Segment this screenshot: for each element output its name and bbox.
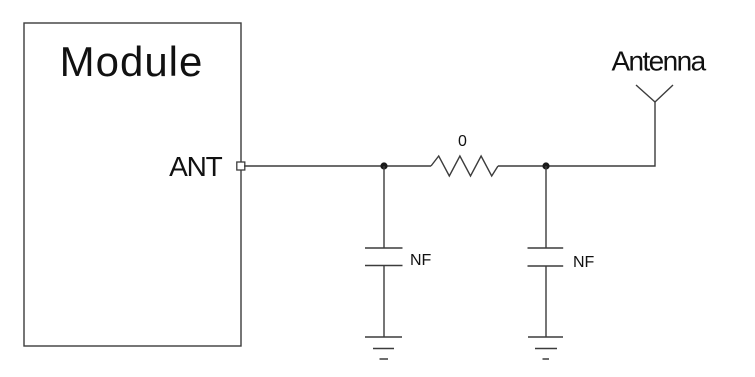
svg-text:Module: Module bbox=[60, 38, 204, 85]
wire node B to capacitor C2 bbox=[545, 166, 547, 248]
ground GND1 bbox=[365, 337, 402, 359]
svg-text:NF: NF bbox=[410, 252, 432, 269]
svg-text:0: 0 bbox=[458, 133, 467, 150]
wire capacitor C1 to ground bbox=[383, 266, 385, 338]
capacitor C2 bbox=[528, 248, 564, 266]
wire capacitor C2 to ground bbox=[545, 266, 547, 337]
node B junction bbox=[542, 162, 549, 169]
resistor R1 zigzag bbox=[431, 156, 498, 176]
node A junction bbox=[380, 162, 387, 169]
svg-text:NF: NF bbox=[573, 254, 595, 271]
module box U1 bbox=[24, 23, 241, 346]
capacitor C1 bbox=[365, 248, 403, 266]
wire node A to capacitor C1 bbox=[383, 166, 385, 248]
wire resistor R1 to node B and antenna corner bbox=[498, 102, 655, 166]
antenna symbol bbox=[636, 85, 673, 102]
svg-text:ANT: ANT bbox=[169, 151, 222, 182]
pin ANT terminal square bbox=[237, 162, 245, 170]
ground GND2 bbox=[528, 337, 563, 359]
wire ANT pin to node A bbox=[244, 165, 431, 167]
svg-text:Antenna: Antenna bbox=[611, 46, 706, 77]
